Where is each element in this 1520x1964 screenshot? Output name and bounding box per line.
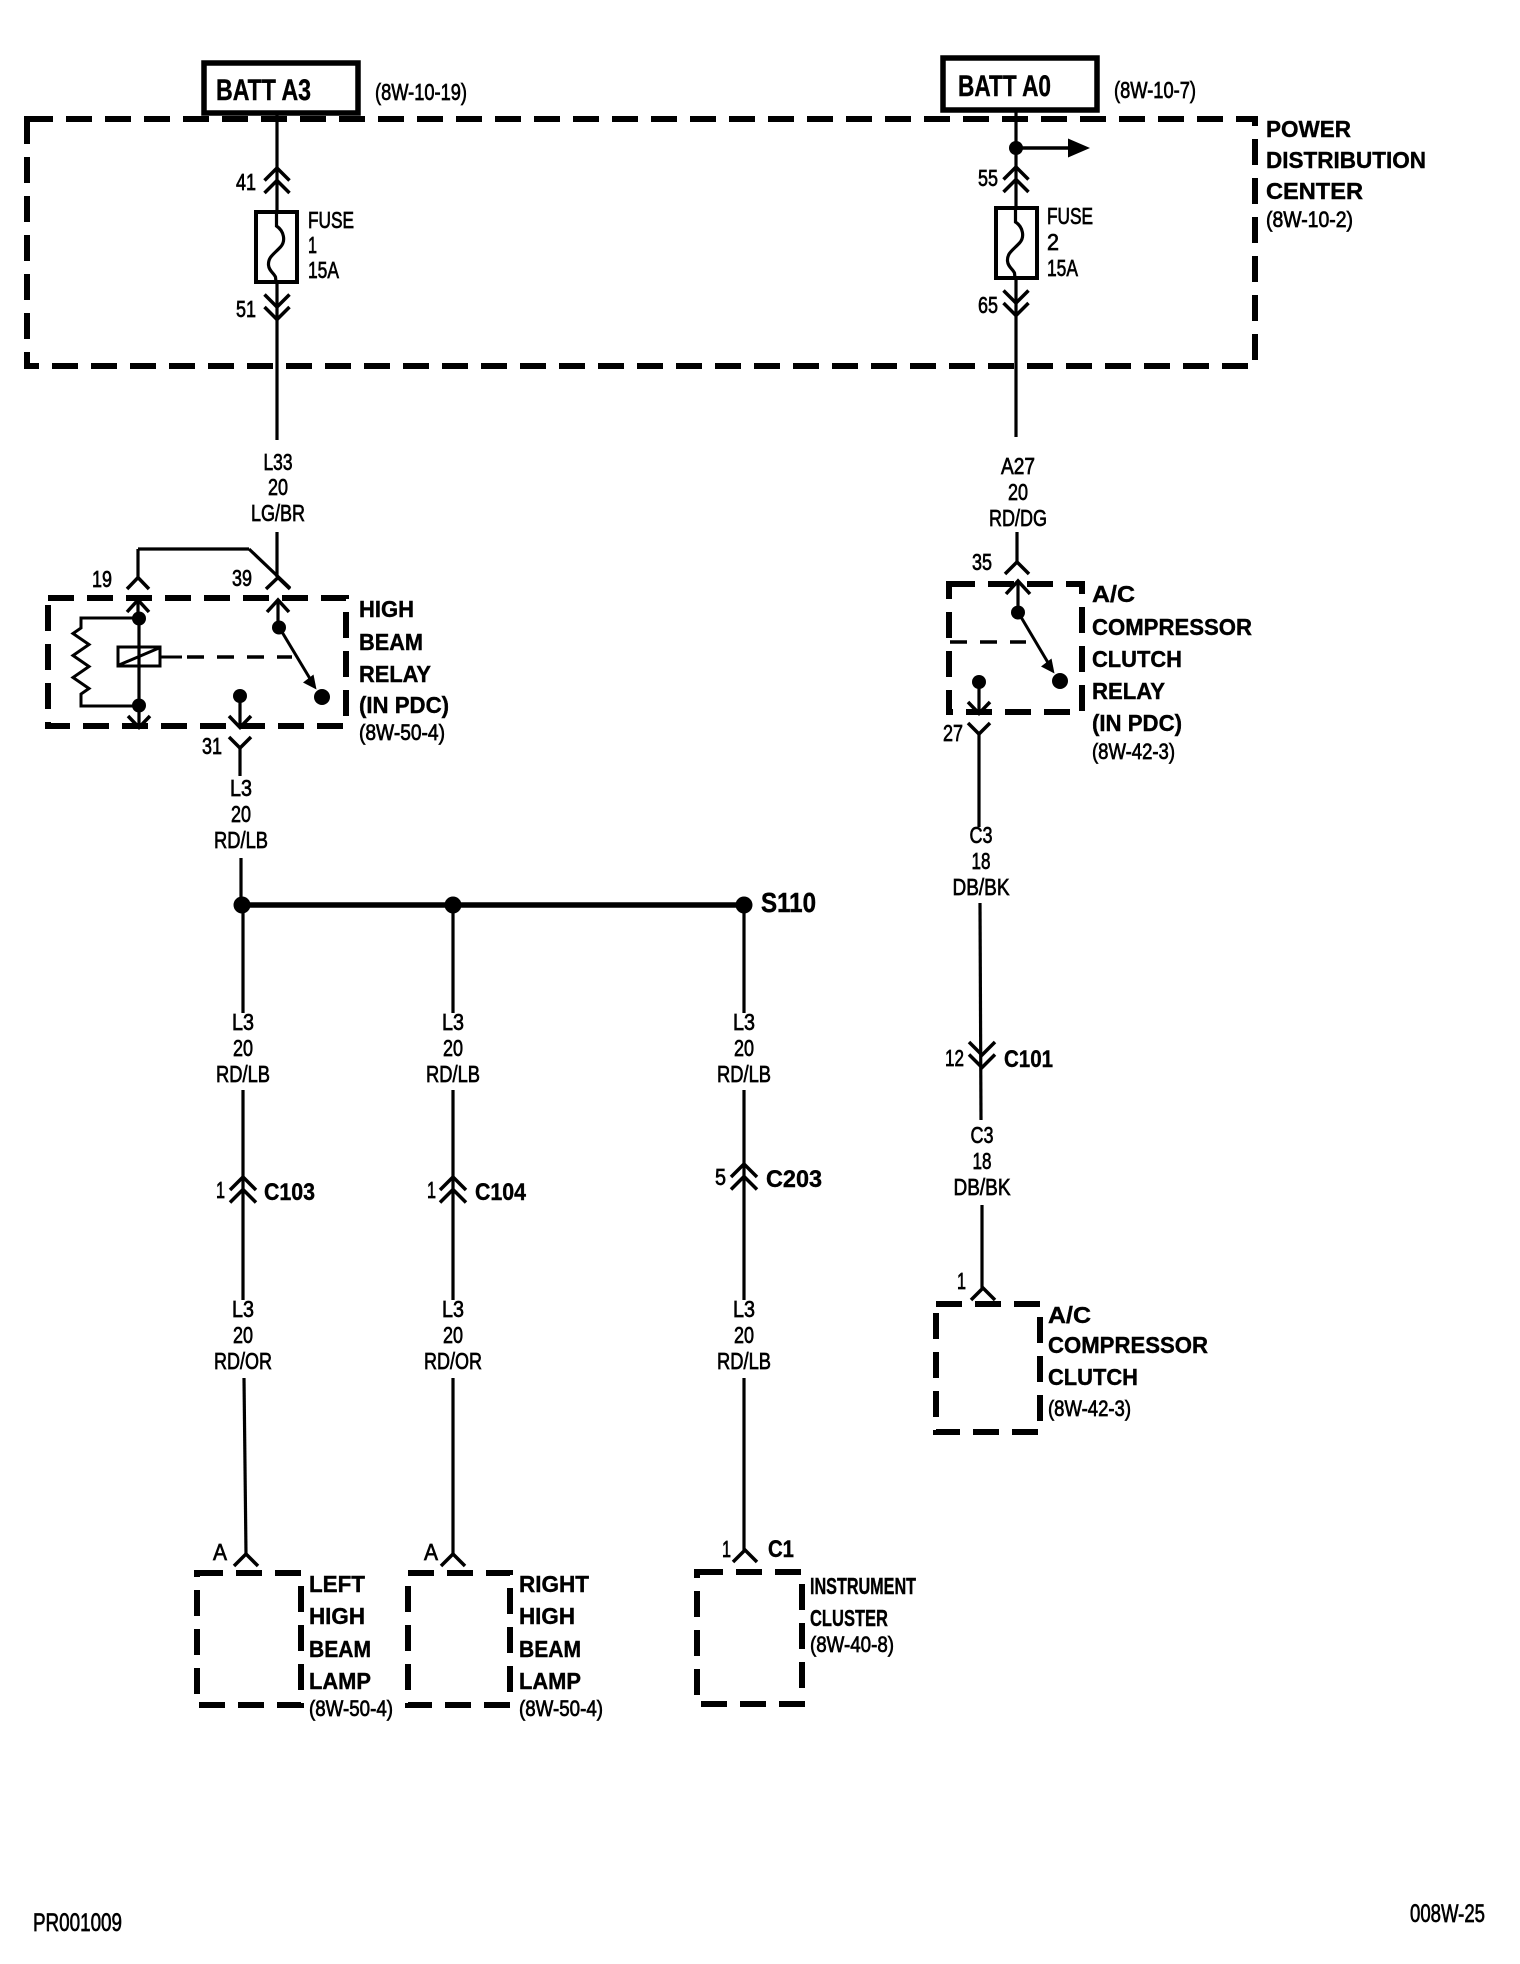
svg-text:C203: C203	[766, 1166, 822, 1193]
svg-text:(8W-40-8): (8W-40-8)	[810, 1632, 894, 1657]
svg-text:1: 1	[722, 1536, 731, 1562]
node junction with arrow (feed continues)	[1009, 139, 1090, 158]
left high beam lamp box	[197, 1573, 301, 1705]
pin 35 male arrow into relay	[1006, 581, 1030, 612]
svg-text:RD/DG: RD/DG	[989, 505, 1047, 531]
svg-text:L3: L3	[442, 1009, 464, 1035]
svg-text:FUSE: FUSE	[308, 207, 354, 233]
svg-text:DB/BK: DB/BK	[953, 874, 1011, 900]
svg-text:L3: L3	[232, 1296, 254, 1322]
pin 35 connector (female)	[972, 549, 1029, 575]
pin 41 connector C	[236, 168, 290, 195]
a/c relay switch blade	[1011, 606, 1068, 690]
svg-text:39: 39	[232, 565, 252, 591]
svg-text:BATT A3: BATT A3	[216, 74, 311, 107]
svg-text:A27: A27	[1001, 453, 1035, 479]
svg-text:C104: C104	[475, 1179, 527, 1206]
pin 27 connector	[943, 675, 990, 827]
svg-text:L3: L3	[442, 1296, 464, 1322]
connector C103 pin 1	[216, 1177, 315, 1206]
svg-text:008W-25: 008W-25	[1410, 1900, 1485, 1928]
svg-text:A: A	[424, 1539, 439, 1565]
wire segment col 3	[742, 1090, 745, 1300]
connector BATT A0	[943, 58, 1097, 110]
svg-text:RD/OR: RD/OR	[424, 1348, 482, 1374]
svg-text:CLUSTER: CLUSTER	[810, 1605, 888, 1631]
pin 55 connector	[978, 165, 1029, 192]
relay suppression resistor	[73, 618, 138, 706]
right high beam lamp box	[408, 1573, 510, 1705]
svg-text:BATT A0: BATT A0	[958, 70, 1051, 103]
svg-text:(8W-10-2): (8W-10-2)	[1266, 207, 1353, 232]
svg-text:RELAY: RELAY	[359, 661, 431, 687]
svg-text:BEAM: BEAM	[359, 629, 423, 655]
svg-text:HIGH: HIGH	[359, 596, 414, 622]
svg-text:RD/LB: RD/LB	[216, 1061, 270, 1087]
wire branch diagonal at node 39	[249, 549, 290, 588]
svg-text:RD/OR: RD/OR	[214, 1348, 272, 1374]
svg-text:RIGHT: RIGHT	[519, 1571, 589, 1597]
pin A connector (left lamp)	[213, 1539, 258, 1566]
svg-text:12: 12	[945, 1045, 964, 1071]
wire label L3 20 RD/LB (col 3 lower)	[717, 1296, 771, 1374]
a/c compressor clutch relay box	[949, 584, 1082, 712]
wire BATT A0 to fuse 2	[1014, 110, 1017, 208]
wire label L3 20 RD/LB (col 3)	[717, 1009, 771, 1087]
svg-text:C103: C103	[264, 1179, 315, 1206]
svg-text:RELAY: RELAY	[1092, 678, 1165, 704]
svg-text:27: 27	[943, 720, 963, 746]
relay linkage (dashed)	[160, 656, 182, 659]
label A/C COMPRESSOR CLUTCH RELAY (IN PDC)	[1092, 581, 1252, 764]
pin A connector (right lamp)	[424, 1539, 465, 1566]
svg-text:DB/BK: DB/BK	[954, 1174, 1012, 1200]
label A/C COMPRESSOR CLUTCH	[1048, 1302, 1208, 1421]
svg-text:20: 20	[734, 1035, 754, 1061]
pin 19 connector (female)	[92, 549, 149, 592]
svg-text:20: 20	[268, 474, 288, 500]
wire label L3 20 RD/LB (col 2)	[426, 1009, 480, 1087]
wire to instrument cluster	[742, 1378, 745, 1550]
svg-text:(IN PDC): (IN PDC)	[1092, 710, 1182, 736]
svg-text:20: 20	[443, 1322, 463, 1348]
label FUSE 1 15A	[308, 207, 354, 283]
svg-text:A/C: A/C	[1048, 1302, 1091, 1328]
svg-text:18: 18	[973, 1148, 992, 1174]
wire label L3 20 RD/OR (col 1)	[214, 1296, 272, 1374]
label POWER DISTRIBUTION CENTER	[1266, 116, 1426, 232]
svg-text:1: 1	[308, 232, 317, 258]
wire fuse 1 down (L33)	[275, 282, 278, 440]
svg-text:COMPRESSOR: COMPRESSOR	[1048, 1332, 1208, 1358]
svg-text:A: A	[213, 1539, 228, 1565]
relay linkage (dashed)	[950, 640, 1026, 644]
label INSTRUMENT CLUSTER	[810, 1573, 916, 1657]
svg-text:L3: L3	[733, 1296, 755, 1322]
svg-text:HIGH: HIGH	[519, 1603, 575, 1629]
svg-text:C3: C3	[971, 1122, 994, 1148]
svg-text:C3: C3	[970, 822, 993, 848]
svg-text:20: 20	[233, 1322, 253, 1348]
svg-text:31: 31	[202, 733, 222, 759]
svg-text:CENTER: CENTER	[1266, 178, 1363, 204]
svg-text:20: 20	[443, 1035, 463, 1061]
svg-text:L3: L3	[733, 1009, 755, 1035]
svg-text:1: 1	[216, 1177, 225, 1203]
svg-text:51: 51	[236, 296, 256, 322]
a/c compressor clutch box	[936, 1304, 1040, 1432]
svg-text:20: 20	[734, 1322, 754, 1348]
pin 19 male arrow into relay	[127, 600, 149, 618]
svg-text:(8W-10-19): (8W-10-19)	[375, 79, 467, 105]
connector C104 pin 1	[427, 1177, 527, 1206]
svg-text:LAMP: LAMP	[309, 1668, 371, 1694]
svg-text:A/C: A/C	[1092, 581, 1135, 607]
svg-text:19: 19	[92, 566, 112, 592]
svg-text:1: 1	[427, 1177, 436, 1203]
svg-text:(IN PDC): (IN PDC)	[359, 692, 449, 718]
connector BATT A3	[204, 63, 358, 113]
wire A27 lower segment	[1015, 532, 1018, 562]
connector C101 pin 12	[945, 1042, 1053, 1073]
relay coil ground pin arrow	[128, 706, 150, 728]
wire to left lamp	[244, 1378, 246, 1554]
connector C1 pin 1	[722, 1536, 794, 1563]
fuse F2 15A	[996, 208, 1037, 278]
wire segment col 2	[451, 1090, 454, 1300]
svg-text:CLUTCH: CLUTCH	[1092, 646, 1182, 672]
wire S110 to C103	[241, 905, 244, 1013]
high beam relay box	[48, 598, 346, 726]
svg-text:INSTRUMENT: INSTRUMENT	[810, 1573, 916, 1599]
wire S110 to C203	[742, 905, 745, 1013]
svg-text:BEAM: BEAM	[519, 1636, 581, 1662]
svg-text:(8W-10-7): (8W-10-7)	[1114, 77, 1196, 103]
wire label L3 20 RD/OR (col 2)	[424, 1296, 482, 1374]
svg-text:DISTRIBUTION: DISTRIBUTION	[1266, 147, 1426, 173]
wire to C101	[980, 903, 981, 1120]
svg-text:18: 18	[972, 848, 991, 874]
wire label C3 18 DB/BK (upper)	[953, 822, 1011, 900]
svg-text:LG/BR: LG/BR	[251, 500, 305, 526]
svg-text:1: 1	[957, 1268, 966, 1294]
pin 65 connector	[978, 291, 1029, 319]
svg-text:41: 41	[236, 169, 256, 195]
svg-text:L3: L3	[232, 1009, 254, 1035]
wire segment col 1	[241, 1090, 244, 1300]
pin 39 male arrow into relay	[267, 600, 289, 627]
svg-text:C101: C101	[1004, 1046, 1053, 1073]
wire label L3 20 RD/LB (relay out)	[214, 775, 268, 853]
wire to splice S110	[239, 858, 242, 905]
wire to right lamp	[451, 1378, 454, 1554]
svg-text:20: 20	[233, 1035, 253, 1061]
svg-text:C1: C1	[768, 1536, 794, 1563]
splice S110 bus	[234, 897, 753, 914]
pin 31 connector	[202, 689, 251, 776]
svg-text:15A: 15A	[308, 257, 339, 283]
relay coil	[118, 647, 160, 666]
wire label L33 20 LG/BR	[251, 449, 305, 526]
svg-text:COMPRESSOR: COMPRESSOR	[1092, 614, 1252, 640]
svg-text:(8W-50-4): (8W-50-4)	[359, 720, 445, 745]
svg-text:L3: L3	[230, 775, 252, 801]
svg-text:2: 2	[1047, 229, 1059, 255]
svg-text:L33: L33	[264, 449, 293, 475]
svg-text:RD/LB: RD/LB	[426, 1061, 480, 1087]
wire fuse 2 down (A27)	[1014, 278, 1017, 437]
svg-text:S110: S110	[761, 887, 816, 918]
svg-text:PR001009: PR001009	[33, 1909, 122, 1937]
svg-text:35: 35	[972, 549, 992, 575]
svg-text:FUSE: FUSE	[1047, 203, 1093, 229]
wire BATT A3 to fuse 1	[275, 113, 278, 213]
connector C203 pin 5	[715, 1164, 822, 1193]
svg-text:(8W-42-3): (8W-42-3)	[1048, 1396, 1131, 1421]
fuse F1 15A	[256, 212, 297, 282]
instrument cluster box	[697, 1572, 802, 1704]
relay switch blade	[272, 621, 330, 706]
svg-text:BEAM: BEAM	[309, 1636, 371, 1662]
pin 51 connector	[236, 295, 290, 323]
svg-text:POWER: POWER	[1266, 116, 1351, 142]
wire label A27 20 RD/DG	[989, 453, 1047, 531]
svg-text:CLUTCH: CLUTCH	[1048, 1364, 1138, 1390]
svg-text:65: 65	[978, 292, 998, 318]
wire S110 to C104	[451, 905, 454, 1013]
svg-text:15A: 15A	[1047, 255, 1078, 281]
label RIGHT HIGH BEAM LAMP	[519, 1571, 603, 1721]
svg-text:(8W-42-3): (8W-42-3)	[1092, 739, 1175, 764]
wire L33 lower segment	[275, 532, 278, 577]
svg-text:LAMP: LAMP	[519, 1668, 581, 1694]
svg-text:HIGH: HIGH	[309, 1603, 365, 1629]
svg-text:RD/LB: RD/LB	[717, 1348, 771, 1374]
pin 39 connector (female)	[232, 565, 290, 591]
svg-text:LEFT: LEFT	[309, 1571, 365, 1597]
wire label C3 18 DB/BK (lower)	[954, 1122, 1012, 1200]
svg-text:RD/LB: RD/LB	[717, 1061, 771, 1087]
svg-text:(8W-50-4): (8W-50-4)	[519, 1696, 603, 1721]
svg-text:RD/LB: RD/LB	[214, 827, 268, 853]
wire branch to pin 19	[138, 547, 249, 550]
wire to a/c compressor clutch	[980, 1205, 983, 1288]
label LEFT HIGH BEAM LAMP	[309, 1571, 393, 1721]
relay coil wire	[132, 612, 146, 713]
pin 1 connector (a/c clutch)	[957, 1268, 995, 1300]
svg-text:(8W-50-4): (8W-50-4)	[309, 1696, 393, 1721]
power distribution center box	[27, 119, 1255, 366]
svg-text:55: 55	[978, 165, 998, 191]
svg-text:20: 20	[1008, 479, 1028, 505]
label HIGH BEAM RELAY (IN PDC)	[359, 596, 449, 745]
label FUSE 2 15A	[1047, 203, 1093, 281]
svg-text:20: 20	[231, 801, 251, 827]
svg-text:5: 5	[715, 1164, 726, 1190]
wire label L3 20 RD/LB (col 1)	[216, 1009, 270, 1087]
